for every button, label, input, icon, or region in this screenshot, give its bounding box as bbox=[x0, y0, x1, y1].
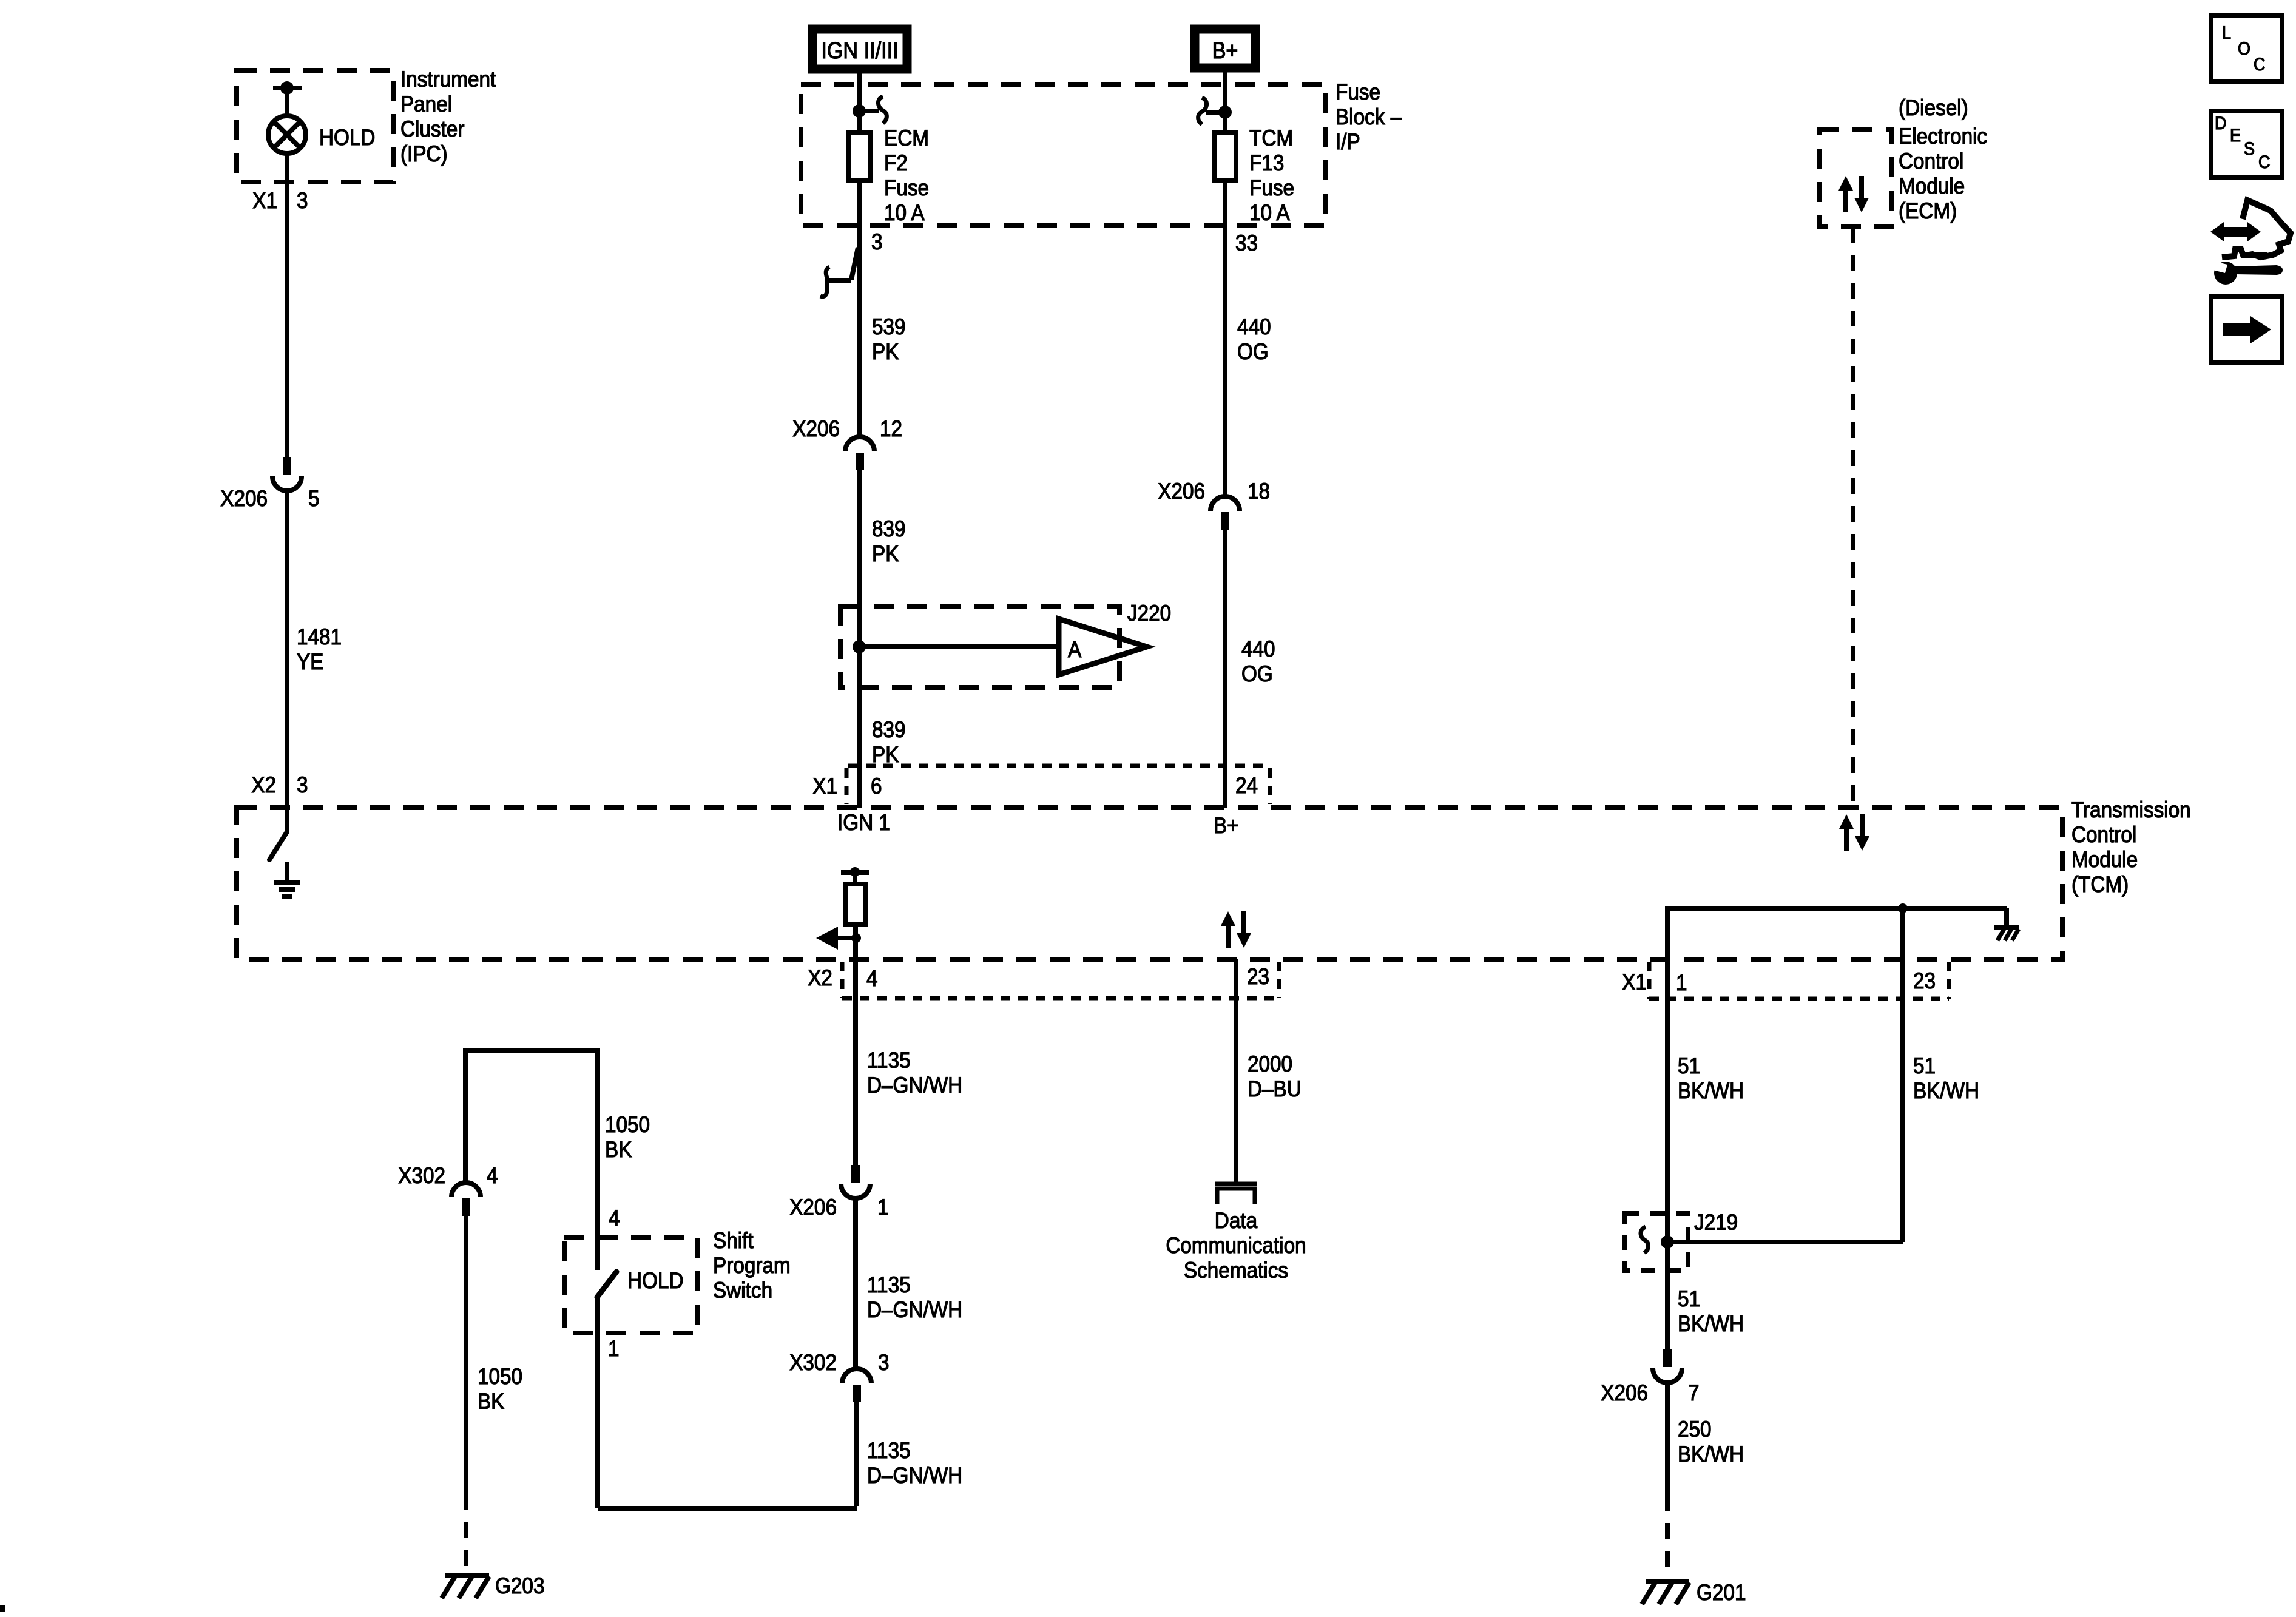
wire: circuit 250 BK/WH to G201 bbox=[1665, 1381, 1670, 1495]
wire: B+ into fuse F13 bbox=[1223, 68, 1227, 132]
wire: circuit 1135 D-GN/WH, X2-4 to X206-1 bbox=[853, 959, 858, 1165]
value label: 1135 D-GN/WH (middle) bbox=[867, 1272, 962, 1322]
symbol: TCM serial data up/down arrows (diesel ECM column) bbox=[1839, 814, 1869, 851]
svg-text:23: 23 bbox=[1247, 964, 1269, 989]
wire: J220 splice branch to A bbox=[859, 644, 1057, 649]
power feed box: IGN II/III bbox=[812, 29, 907, 69]
svg-text:X1: X1 bbox=[252, 188, 277, 213]
pin label: 4 (switch) bbox=[609, 1206, 620, 1230]
wire: lamp to X206-5, circuit 1481 YE upper bbox=[285, 154, 289, 457]
node: junction dot at J220 bbox=[853, 640, 866, 653]
wire: X206-5 to TCM X2-3, circuit 1481 YE lower bbox=[285, 489, 289, 808]
svg-text:X206: X206 bbox=[789, 1195, 837, 1220]
clip: fuse F13 terminal clip (top) bbox=[1198, 98, 1225, 124]
ground G203 bbox=[442, 1575, 489, 1598]
clip: J219 terminal bbox=[1641, 1227, 1649, 1253]
svg-text:1481: 1481 bbox=[297, 624, 342, 649]
svg-text:3: 3 bbox=[871, 229, 883, 254]
value label: 839 PK (upper) bbox=[872, 516, 906, 566]
label: G203 bbox=[495, 1573, 544, 1598]
label: HOLD (IPC lamp) bbox=[319, 125, 375, 150]
value label: 51 BK/WH (below J219) bbox=[1678, 1286, 1744, 1336]
svg-text:OG: OG bbox=[1237, 339, 1269, 364]
svg-text:BK: BK bbox=[605, 1137, 632, 1162]
off-page arrow A (triangle) bbox=[1059, 619, 1147, 675]
value label: 1481 YE (upper) bbox=[297, 624, 342, 674]
symbol: ECM serial data up/down arrows bbox=[1838, 176, 1869, 212]
wire: IPC internal feed T-bar bbox=[273, 88, 302, 116]
svg-text:BK: BK bbox=[478, 1389, 505, 1414]
svg-text:Communication: Communication bbox=[1166, 1233, 1306, 1258]
pin label: X1 | 1 bbox=[1622, 970, 1687, 995]
wire: circuit 2000 D-BU, X2-23 to data link bbox=[1234, 959, 1238, 1182]
svg-text:O: O bbox=[2238, 39, 2250, 59]
connector strip X2 (TCM bottom) bbox=[842, 962, 1279, 998]
svg-text:1: 1 bbox=[877, 1195, 889, 1220]
label: Data Communication Schematics bbox=[1166, 1208, 1306, 1283]
svg-text:D: D bbox=[2215, 113, 2226, 134]
pin label: X206 | 5 bbox=[220, 486, 319, 511]
svg-text:D–BU: D–BU bbox=[1248, 1076, 1302, 1101]
svg-text:HOLD: HOLD bbox=[627, 1268, 683, 1293]
pin label: X302 | 3 bbox=[789, 1350, 889, 1375]
value label: 2000 D-BU bbox=[1248, 1052, 1302, 1101]
fuse F13: TCM F13 Fuse 10 A bbox=[1214, 132, 1236, 181]
ground: TCM internal chassis ground bbox=[1994, 928, 2019, 940]
wire: circuit 51 BK/WH, J219 to X206-7 bbox=[1665, 1242, 1670, 1349]
wire: TCM internal ground bus bbox=[1667, 906, 2007, 959]
svg-text:Fuse: Fuse bbox=[1249, 175, 1294, 200]
svg-text:10 A: 10 A bbox=[1249, 200, 1290, 225]
svg-text:Panel: Panel bbox=[400, 92, 452, 116]
pin label: X1 | 3 (IPC connector) bbox=[252, 188, 308, 213]
svg-text:X206: X206 bbox=[1601, 1380, 1648, 1405]
svg-text:4: 4 bbox=[866, 966, 878, 991]
fuse F2: ECM F2 Fuse 10 A bbox=[849, 132, 871, 181]
wire: circuit 51 BK/WH, X1-1 down to J219 bbox=[1665, 959, 1670, 1242]
svg-text:Instrument: Instrument bbox=[400, 67, 496, 92]
value label: 51 BK/WH (left) bbox=[1678, 1053, 1744, 1103]
pin label: 1 (switch) bbox=[608, 1336, 620, 1361]
svg-text:Module: Module bbox=[2071, 847, 2138, 872]
svg-text:3: 3 bbox=[878, 1350, 890, 1375]
resistor: TCM internal pull-up bbox=[846, 884, 865, 924]
switch: HOLD contact blade bbox=[597, 1238, 616, 1297]
symbol: TCM serial data up/down arrows (B+ column) bbox=[1221, 911, 1251, 948]
svg-text:839: 839 bbox=[872, 516, 906, 541]
svg-text:C: C bbox=[2258, 152, 2270, 173]
svg-text:7: 7 bbox=[1688, 1380, 1700, 1405]
svg-text:Control: Control bbox=[1899, 149, 1963, 174]
svg-text:HOLD: HOLD bbox=[319, 125, 375, 150]
module box: Electronic Control Module (ECM) (Diesel) bbox=[1819, 129, 1891, 227]
connector X206 pin 5 (inline) bbox=[272, 457, 302, 491]
svg-text:(ECM): (ECM) bbox=[1899, 198, 1957, 223]
power feed box: B+ bbox=[1195, 29, 1255, 68]
svg-text:G203: G203 bbox=[495, 1573, 544, 1598]
clip: fuse F2 terminal clip (top) bbox=[859, 96, 886, 123]
svg-text:1: 1 bbox=[608, 1336, 620, 1361]
wire: circuit 539 PK, F2 pin 3 down to X206-12 bbox=[857, 225, 862, 437]
svg-text:S: S bbox=[2244, 139, 2255, 160]
svg-text:(IPC): (IPC) bbox=[400, 141, 448, 166]
switch: TCM internal lamp driver blade bbox=[269, 808, 287, 860]
svg-text:BK/WH: BK/WH bbox=[1913, 1078, 1979, 1103]
svg-text:23: 23 bbox=[1913, 968, 1936, 993]
svg-text:2000: 2000 bbox=[1248, 1052, 1292, 1076]
svg-text:51: 51 bbox=[1678, 1286, 1700, 1311]
wire: dashed stub to G203 bbox=[464, 1494, 468, 1573]
svg-text:1135: 1135 bbox=[867, 1438, 911, 1463]
svg-text:B+: B+ bbox=[1214, 813, 1239, 838]
net label: IGN 1 bbox=[837, 810, 890, 835]
svg-text:X2: X2 bbox=[251, 772, 276, 797]
wire: J219 tie bar bbox=[1667, 1240, 1903, 1244]
wire: IGN II/III into fuse F2 bbox=[857, 69, 862, 132]
icon box: forward arrow bbox=[2211, 296, 2282, 362]
svg-text:J219: J219 bbox=[1694, 1210, 1738, 1235]
pin label: 23 (X1) bbox=[1913, 968, 1936, 993]
svg-text:IGN II/III: IGN II/III bbox=[821, 37, 898, 63]
connector strip X1 (TCM bottom right) bbox=[1649, 962, 1949, 999]
svg-text:6: 6 bbox=[871, 774, 882, 798]
svg-text:18: 18 bbox=[1248, 479, 1270, 504]
node: junction dot at TCM output bbox=[851, 933, 861, 943]
clip: in-line terminal below F2 bbox=[820, 248, 858, 297]
svg-text:Fuse: Fuse bbox=[884, 175, 929, 200]
value label: 1050 BK (left run) bbox=[478, 1364, 522, 1414]
net label: B+ (TCM pin) bbox=[1214, 813, 1239, 838]
svg-text:X206: X206 bbox=[792, 416, 840, 441]
icon box: DESC bbox=[2211, 111, 2282, 177]
pin label: X206 | 18 bbox=[1158, 479, 1270, 504]
node: junction dot on ground bus bbox=[1898, 903, 1908, 913]
label: (Diesel) Electronic Control Module (ECM) bbox=[1899, 95, 1987, 223]
svg-text:G201: G201 bbox=[1697, 1580, 1746, 1605]
svg-text:33: 33 bbox=[1235, 231, 1258, 255]
svg-text:X302: X302 bbox=[398, 1163, 445, 1188]
wire: resistor to output node bbox=[853, 924, 858, 959]
connector X302 pin 3 (inline) bbox=[842, 1369, 871, 1402]
wire: dashed serial data line ECM to TCM bbox=[1851, 227, 1855, 808]
svg-text:BK/WH: BK/WH bbox=[1678, 1442, 1744, 1467]
switch box: Shift Program Switch bbox=[564, 1238, 698, 1333]
value label: 1135 D-GN/WH (upper) bbox=[867, 1048, 962, 1098]
connector X206 pin 18 (inline) bbox=[1210, 496, 1240, 530]
wire: circuit 1135 D-GN/WH, X206-1 to X302-3 bbox=[853, 1197, 858, 1369]
svg-text:D–GN/WH: D–GN/WH bbox=[867, 1463, 962, 1488]
wire: circuit 1050 BK, X302-4 to G203 bbox=[464, 1216, 468, 1494]
pin label: X302 | 4 bbox=[398, 1163, 498, 1188]
svg-text:ECM: ECM bbox=[884, 126, 929, 150]
label: G201 bbox=[1697, 1580, 1746, 1605]
connector strip X1 (TCM top) bbox=[846, 766, 1270, 804]
svg-text:839: 839 bbox=[872, 717, 906, 742]
svg-text:250: 250 bbox=[1678, 1417, 1712, 1442]
node: junction dot at J219 bbox=[1661, 1235, 1674, 1249]
svg-text:51: 51 bbox=[1678, 1053, 1700, 1078]
svg-text:X206: X206 bbox=[220, 486, 268, 511]
wire: fuse F2 to fuse block edge bbox=[857, 183, 862, 225]
wire: dashed stub to G201 bbox=[1665, 1495, 1670, 1579]
module box: Fuse Block - I/P bbox=[801, 84, 1326, 225]
node: junction dot at F13 clip bbox=[1218, 106, 1232, 119]
node: junction dot at F2 clip bbox=[853, 104, 866, 118]
svg-text:1: 1 bbox=[1676, 970, 1687, 995]
svg-text:5: 5 bbox=[308, 486, 320, 511]
svg-text:1050: 1050 bbox=[478, 1364, 522, 1389]
svg-text:Module: Module bbox=[1899, 174, 1965, 198]
svg-text:C: C bbox=[2254, 55, 2265, 75]
svg-text:L: L bbox=[2222, 23, 2231, 44]
icon box: LOC bbox=[2211, 16, 2282, 82]
label: TCM F13 Fuse 10 A bbox=[1249, 126, 1294, 225]
pin label: 33 (fuse block) bbox=[1235, 231, 1258, 255]
svg-text:PK: PK bbox=[872, 541, 899, 566]
value label: 1135 D-GN/WH (lower) bbox=[867, 1438, 962, 1488]
svg-text:4: 4 bbox=[487, 1163, 498, 1188]
pin label: 3 (fuse block) bbox=[871, 229, 883, 254]
svg-text:1050: 1050 bbox=[605, 1112, 650, 1137]
label: Shift Program Switch bbox=[713, 1228, 791, 1303]
svg-text:440: 440 bbox=[1237, 314, 1271, 339]
svg-text:24: 24 bbox=[1235, 773, 1258, 798]
svg-text:PK: PK bbox=[872, 339, 899, 364]
pin label: X206 | 12 bbox=[792, 416, 902, 441]
svg-text:4: 4 bbox=[609, 1206, 620, 1230]
wire: fuse F13 to fuse block edge bbox=[1223, 183, 1227, 225]
svg-text:Schematics: Schematics bbox=[1184, 1258, 1288, 1283]
pin label: X2 | 4 bbox=[808, 965, 877, 991]
svg-text:Electronic: Electronic bbox=[1899, 124, 1987, 149]
wire: circuit 440 OG lower, X206-18 to TCM X1-24 bbox=[1223, 530, 1227, 808]
svg-text:A: A bbox=[1068, 637, 1082, 662]
value label: 51 BK/WH (right) bbox=[1913, 1053, 1979, 1103]
wire: ground bus branch to X1-23 bbox=[1900, 908, 1905, 959]
value label: 440 OG (lower) bbox=[1241, 636, 1275, 686]
connector X302 pin 4 (inline) bbox=[451, 1183, 481, 1216]
svg-text:B+: B+ bbox=[1212, 37, 1238, 63]
module box: Transmission Control Module (TCM) bbox=[237, 808, 2062, 959]
svg-text:Switch: Switch bbox=[713, 1278, 772, 1303]
svg-text:I/P: I/P bbox=[1335, 129, 1360, 154]
icon: hand with double arrow and wrench bbox=[2210, 200, 2291, 285]
connector X206 pin 1 (inline) bbox=[841, 1165, 870, 1198]
svg-text:3: 3 bbox=[297, 772, 308, 797]
svg-text:3: 3 bbox=[297, 188, 308, 213]
pin label: X206 | 1 bbox=[789, 1195, 888, 1220]
svg-text:Cluster: Cluster bbox=[400, 116, 465, 141]
wire: circuit 1135 D-GN/WH to switch return bbox=[598, 1402, 857, 1508]
svg-text:Fuse: Fuse bbox=[1335, 79, 1380, 104]
label: J220 bbox=[1127, 601, 1171, 626]
svg-text:539: 539 bbox=[872, 314, 906, 339]
connector X206 pin 7 (inline) bbox=[1653, 1349, 1682, 1383]
svg-text:Control: Control bbox=[2071, 822, 2136, 847]
ground: TCM internal signal ground bbox=[274, 862, 300, 897]
label: Fuse Block - I/P bbox=[1335, 79, 1402, 154]
svg-text:(Diesel): (Diesel) bbox=[1899, 95, 1968, 120]
module box: Instrument Panel Cluster (IPC) bbox=[237, 70, 393, 182]
node: junction dot on IPC feed bbox=[280, 81, 294, 95]
wire: circuit 51 BK/WH, X1-23 down to J219 bbox=[1900, 959, 1905, 1242]
pin label: X1 | 6 bbox=[812, 774, 882, 798]
svg-text:BK/WH: BK/WH bbox=[1678, 1311, 1744, 1336]
svg-text:E: E bbox=[2230, 126, 2241, 146]
svg-text:D–GN/WH: D–GN/WH bbox=[867, 1297, 962, 1322]
svg-text:OG: OG bbox=[1241, 661, 1273, 686]
label: Transmission Control Module (TCM) bbox=[2071, 797, 2191, 897]
wire: TCM internal bar at IGN1 bbox=[841, 873, 869, 885]
wire: circuit 440 OG, F13 pin 33 down to X206-18 bbox=[1223, 225, 1227, 496]
svg-text:440: 440 bbox=[1241, 636, 1275, 661]
symbol: off-page bracket to Data Communication Schematics bbox=[1215, 1184, 1257, 1204]
pin label: 24 bbox=[1235, 773, 1258, 798]
svg-text:TCM: TCM bbox=[1249, 126, 1293, 150]
svg-text:F2: F2 bbox=[884, 150, 908, 175]
value label: 440 OG (upper) bbox=[1237, 314, 1271, 364]
svg-text:Transmission: Transmission bbox=[2071, 797, 2191, 822]
wire: switch pin 1 down bbox=[595, 1297, 600, 1508]
svg-text:1135: 1135 bbox=[867, 1272, 911, 1297]
splice pack J220 (dashed box) bbox=[840, 607, 1119, 687]
pin label: 23 (X2) bbox=[1247, 964, 1269, 989]
svg-text:YE: YE bbox=[297, 649, 323, 674]
value label: 539 PK bbox=[872, 314, 906, 364]
svg-text:IGN 1: IGN 1 bbox=[837, 810, 890, 835]
node: junction dot above resistor bbox=[850, 867, 860, 877]
svg-text:Program: Program bbox=[713, 1253, 791, 1278]
label: HOLD (switch position) bbox=[627, 1268, 683, 1293]
svg-text:F13: F13 bbox=[1249, 150, 1284, 175]
svg-text:X206: X206 bbox=[1158, 479, 1205, 504]
svg-text:Block –: Block – bbox=[1335, 104, 1402, 129]
lamp: HOLD indicator (circle with X) bbox=[268, 116, 306, 154]
svg-text:51: 51 bbox=[1913, 1053, 1936, 1078]
value label: 250 BK/WH bbox=[1678, 1417, 1744, 1467]
svg-text:X302: X302 bbox=[789, 1350, 837, 1375]
symbol: TCM internal arrow (signal to logic) bbox=[816, 927, 855, 950]
svg-text:X1: X1 bbox=[1622, 970, 1647, 994]
svg-text:(TCM): (TCM) bbox=[2071, 872, 2129, 897]
splice J219 (dashed box) bbox=[1625, 1214, 1688, 1271]
label: Instrument Panel Cluster (IPC) bbox=[400, 67, 496, 166]
value label: 1050 BK (right run) bbox=[605, 1112, 650, 1162]
svg-text:J220: J220 bbox=[1127, 601, 1171, 626]
pin label: X206 | 7 bbox=[1601, 1380, 1699, 1405]
svg-text:1135: 1135 bbox=[867, 1048, 911, 1073]
wire: circuit 839 PK upper bbox=[857, 470, 862, 808]
svg-text:12: 12 bbox=[880, 416, 902, 441]
label: ECM F2 Fuse 10 A bbox=[884, 126, 929, 225]
svg-text:X1: X1 bbox=[812, 774, 837, 798]
svg-text:10 A: 10 A bbox=[884, 200, 925, 225]
value label: 839 PK (lower) bbox=[872, 717, 906, 767]
label: J219 bbox=[1694, 1210, 1738, 1235]
svg-text:X2: X2 bbox=[808, 965, 832, 990]
wire: circuit 1050 BK top run bbox=[463, 1048, 600, 1238]
stray scan mark bottom-left bbox=[0, 1605, 5, 1612]
svg-text:PK: PK bbox=[872, 742, 899, 767]
connector X206 pin 12 (inline) bbox=[845, 437, 874, 470]
ground G201 bbox=[1642, 1581, 1689, 1604]
svg-text:BK/WH: BK/WH bbox=[1678, 1078, 1744, 1103]
svg-text:D–GN/WH: D–GN/WH bbox=[867, 1073, 962, 1098]
svg-text:Data: Data bbox=[1215, 1208, 1258, 1233]
pin label: X2 | 3 (TCM connector) bbox=[251, 772, 308, 797]
svg-text:Shift: Shift bbox=[713, 1228, 754, 1253]
